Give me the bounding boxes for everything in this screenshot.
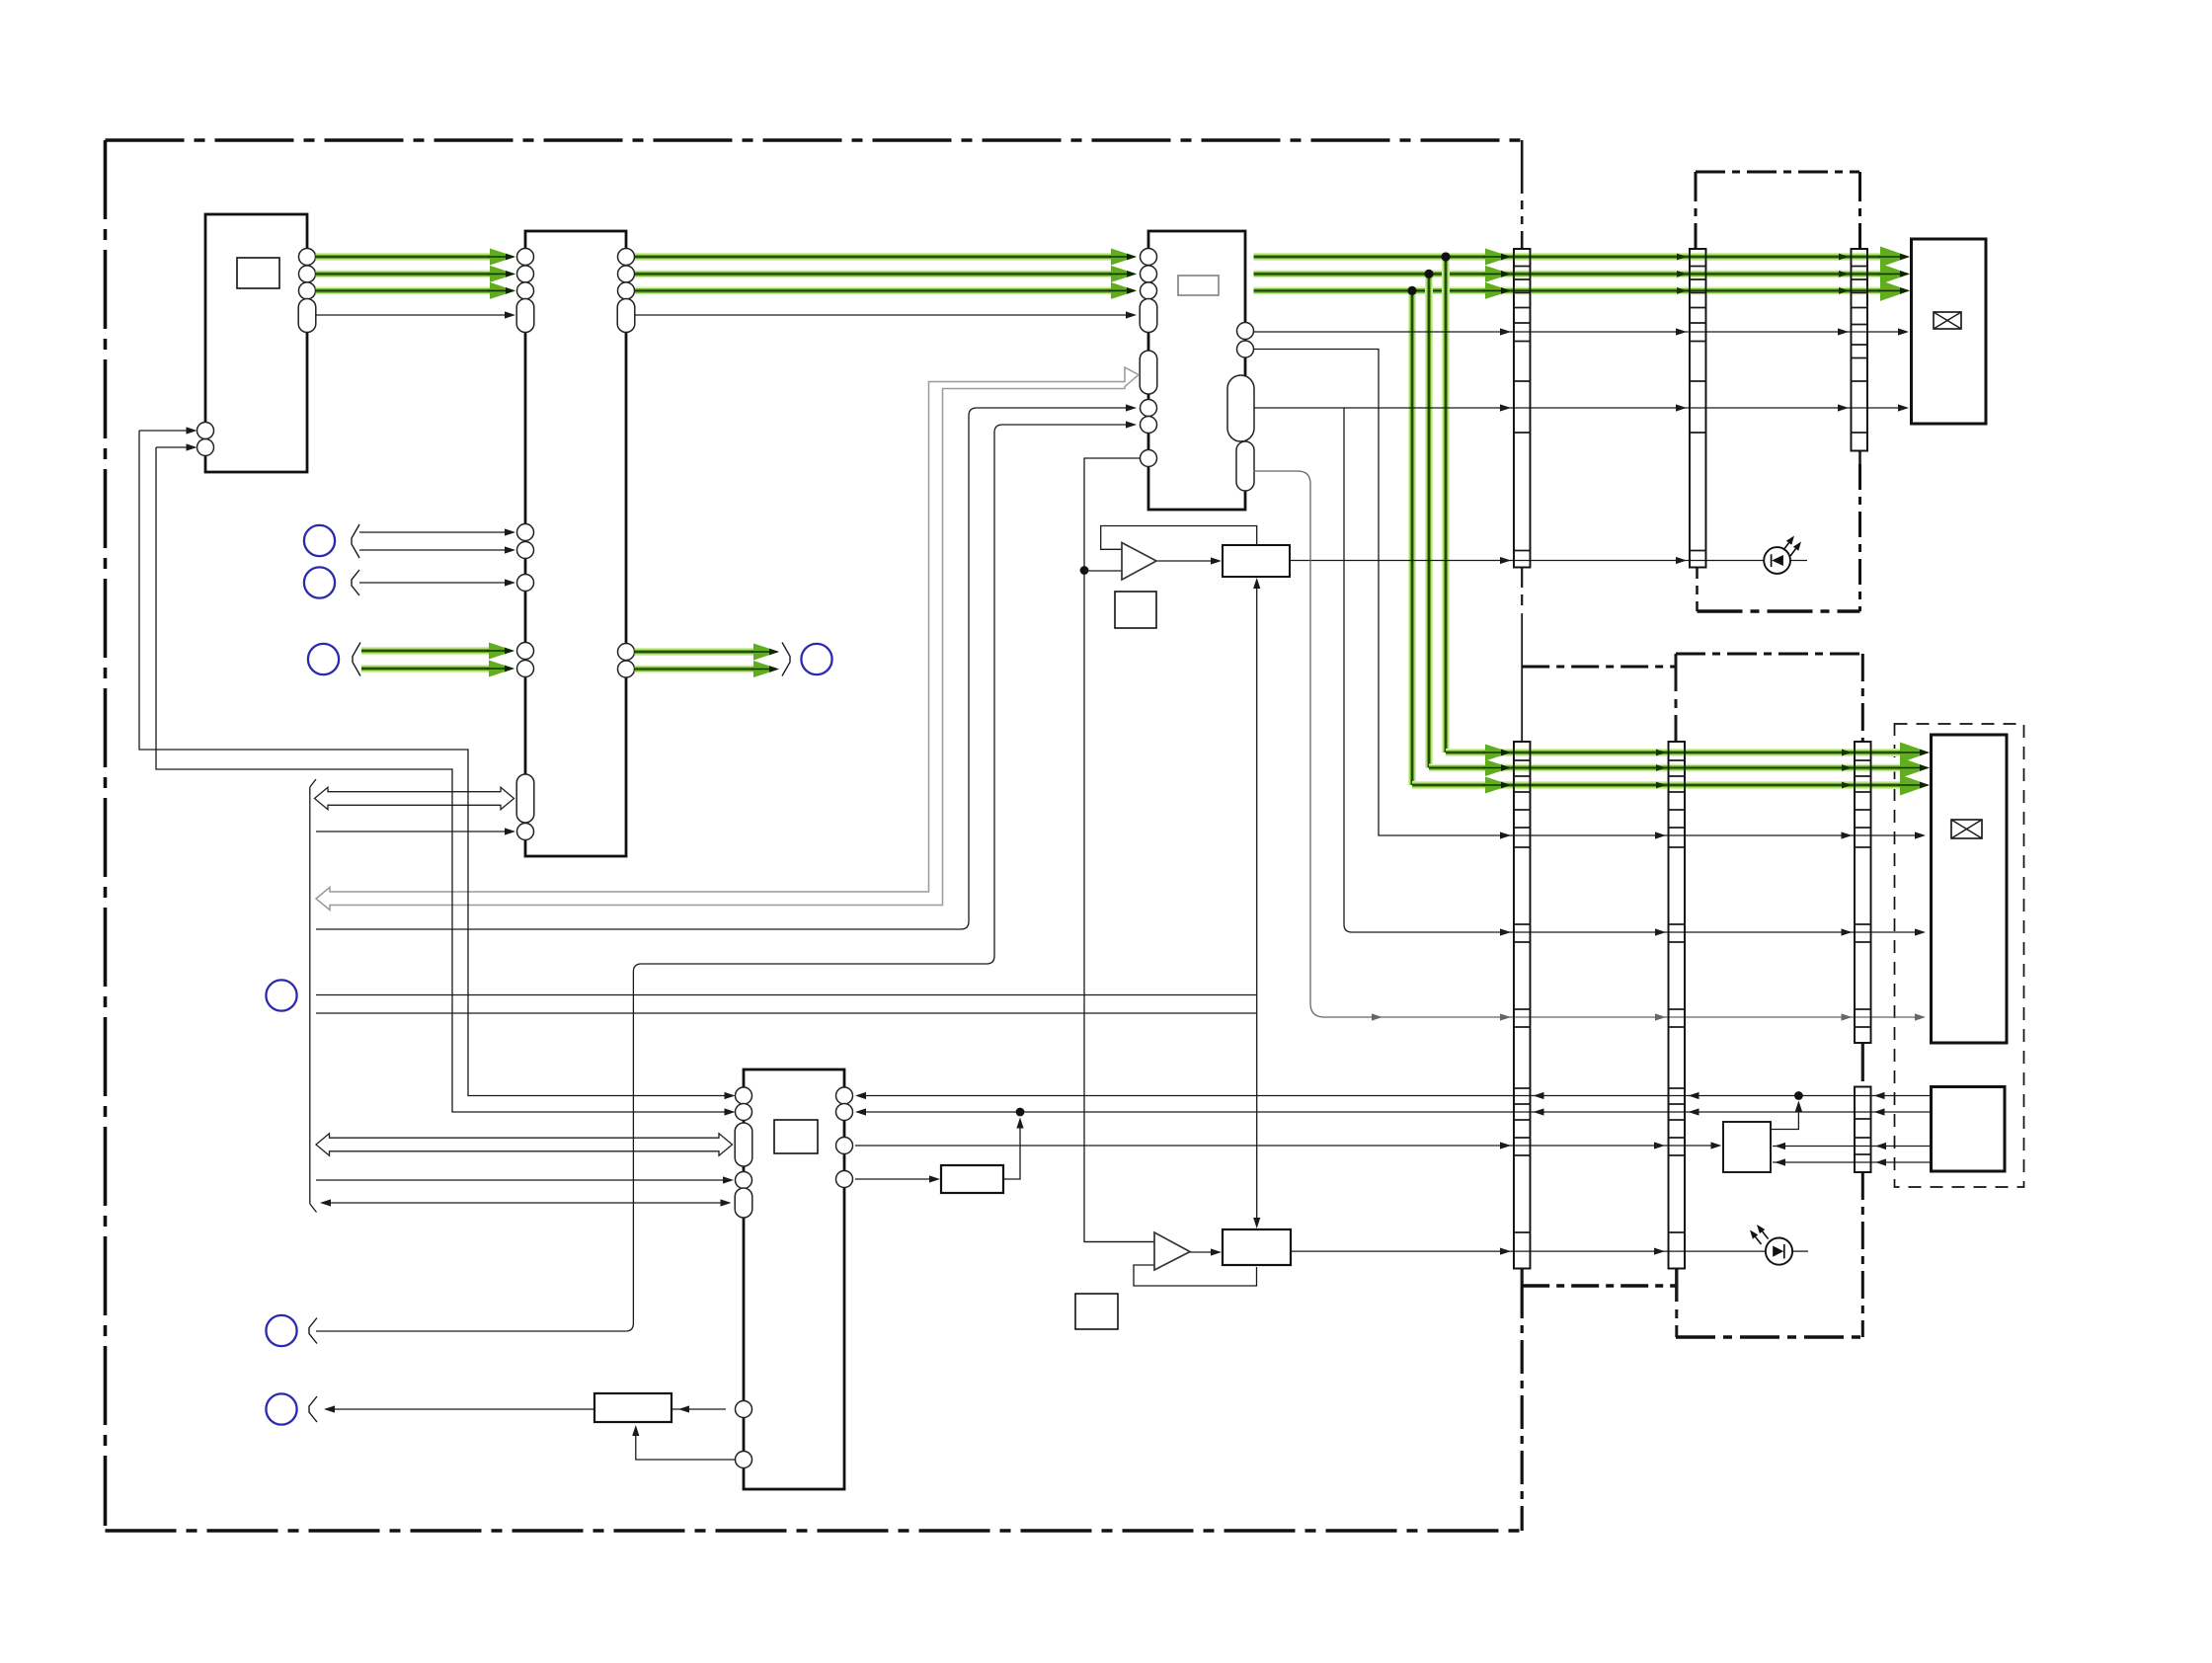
connector CN8b (small lower part of CN8) xyxy=(1855,1087,1871,1173)
connector CN6 outline overlay xyxy=(1514,742,1531,1269)
connector CN6 (vertical inline connector, lower left) xyxy=(1514,742,1531,1269)
green video line B: CN1 to U2 xyxy=(635,286,1120,294)
LED D2 (photo-reflector, lower) xyxy=(1766,1238,1792,1265)
resistor R4 (after op-amp A2) xyxy=(1223,1229,1291,1265)
connector CN5 (sub-board A right connector) xyxy=(1851,249,1867,451)
wire: R3 to U6 pad xyxy=(671,1408,726,1410)
wire: control line A (y=1007.5) to resistor rail xyxy=(316,994,1257,996)
LCD module dashed enclosure xyxy=(1895,724,2024,1187)
block U5 (small unit bottom right) xyxy=(1932,1087,2006,1172)
junction dot: green R branch xyxy=(1441,252,1450,261)
sub-board B outline: right edge between CN8 and CN8b xyxy=(1861,1043,1864,1081)
green video line R: U1 to CN1 xyxy=(316,253,500,261)
connector CN7 outline overlay xyxy=(1669,742,1686,1269)
terminal J2 (blue) xyxy=(304,567,335,597)
wire: U5 to U7 (y=1160.5) xyxy=(1773,1146,1931,1148)
wire: terminal J7 line from R3 xyxy=(326,1408,594,1410)
wire: branch of y413 line down to lower section and across to U4 (y=944) xyxy=(1344,408,1917,932)
test-point square TP2 (below op-amp A2) xyxy=(1075,1294,1118,1329)
wire: R1 to LED D1 via CN3/CN4 (LED drive, upper) xyxy=(1290,560,1765,562)
sub-board B (lower flex board) dash-dot outline: top edge xyxy=(1676,653,1863,656)
wire: sync line CN1 to U2 xyxy=(635,314,1128,316)
sub-board B outline: right edge below CN8b (dash-dot) xyxy=(1861,1172,1864,1337)
CN1 left pads (bus stadium + bottom pad) xyxy=(516,774,534,823)
U3 crossed-box symbol (lamp/heater element) xyxy=(1934,312,1961,329)
routed bus arrow (U2 stadium to lower left, gray outline) xyxy=(316,367,1139,911)
green aux pair in: to CN1 (lower) xyxy=(361,665,499,673)
sub-board A outline: right edge upper part xyxy=(1858,172,1861,249)
wire: aux line 1 to CN1 xyxy=(359,531,507,533)
wire: U7 to junction riser xyxy=(1771,1106,1798,1130)
terminal J1 (blue) xyxy=(304,525,335,556)
green branch B: vertical + lower run to U4 xyxy=(1408,290,1416,785)
wire: bus link line to U6 stadium2 (y=1218) xyxy=(322,1202,723,1204)
U6 left pads (bottom pair) xyxy=(736,1401,752,1418)
wire: U5 data to U6 (y=1126) across connectors xyxy=(857,1111,1931,1113)
wire: U2 pad to lower section and across to U4 (x=1396, y=846) xyxy=(1254,350,1918,836)
wire: input to U1 pad 1 xyxy=(139,430,195,432)
green video line G: U1 to CN1 xyxy=(316,270,500,277)
wire: R2 up to y1126 junction xyxy=(1003,1123,1020,1179)
junction dot: green B branch xyxy=(1407,286,1416,295)
wire: route from terminal J6 to U2 pad (y1348,x641,y976,x1007) xyxy=(316,425,1128,1331)
green video line G: U2 to U3 via CN3/CN4/CN5 xyxy=(1254,270,1893,277)
wire: line to CN1 bottom pad xyxy=(316,831,507,832)
wire: op-amp A2 input from reference rail xyxy=(1084,1241,1155,1243)
wire: op-amp A2 feedback loop xyxy=(1134,1265,1257,1286)
wire: resistor rail vertical (feeds R1 up / R4 down) xyxy=(1256,589,1258,1219)
op-amp A1 xyxy=(1122,543,1156,581)
resistor R1 (after op-amp A1) xyxy=(1223,545,1290,577)
sub-board A outline: left edge below CN4 xyxy=(1696,568,1698,580)
wire: sync line U1 to CN1 xyxy=(316,314,507,316)
wire: op-amp A1 output to R1 xyxy=(1156,560,1213,562)
connector CN4 outline overlay xyxy=(1690,249,1706,568)
sub-board A (upper flex board) dash-dot outline: top edge xyxy=(1696,171,1859,174)
IC U1 (signal source block) xyxy=(205,214,307,472)
wire: aux line 2 to CN1 xyxy=(359,549,507,551)
CN1 right pads top group xyxy=(618,249,635,266)
connector CN3 (vertical inline connector on main board right edge, upper) xyxy=(1514,249,1531,568)
terminal J4 (blue, green pair out) xyxy=(801,644,831,674)
sub-board A outline: right edge below CN5 xyxy=(1858,451,1861,465)
U6 internal function rectangle xyxy=(774,1120,818,1153)
resistor R2 (near U6 right side) xyxy=(941,1165,1003,1193)
terminal J7 (blue) xyxy=(266,1393,296,1424)
op-amp A2 xyxy=(1154,1232,1190,1270)
U6 left pads (bus in) xyxy=(736,1087,752,1104)
U2 left pads (bus stadium + control) xyxy=(1140,351,1157,394)
wire: input to U1 pad 2 xyxy=(156,446,195,448)
wire: R4 to LED D2 via CN6/CN7 (LED drive, lower) xyxy=(1291,1250,1766,1252)
wire: op-amp A2 output to R4 xyxy=(1189,1251,1213,1253)
U1 left pads (control in) xyxy=(197,423,214,439)
sub-board B outline: left edge to CN7 top xyxy=(1675,654,1678,691)
bidirectional bus arrow (U6 stadium to left area) xyxy=(316,1134,733,1155)
green branch R: vertical + lower run to U4 xyxy=(1442,257,1450,752)
main board outline: right edge between CN3 and CN6 (solid+dash) xyxy=(1521,568,1523,589)
wire: long route J-line to U2 pad (y941 then up at x981) xyxy=(316,408,1128,929)
green branch G: vertical + lower run to U4 xyxy=(1425,274,1433,767)
CN1 left pads (green pair in) xyxy=(517,643,534,660)
connector CN4 (sub-board A left connector) xyxy=(1690,249,1706,568)
U4 crossed-box symbol xyxy=(1951,820,1982,838)
bidirectional bus arrow (CN1 stadium to left area) xyxy=(315,787,514,809)
terminal J5 (blue) xyxy=(266,980,296,1010)
green aux pair in: to CN1 (upper) xyxy=(361,647,499,655)
wire: U1 ctrl 2 route (down/right/down to U6 pad) xyxy=(156,447,725,1112)
wire: U6 pad to R2 xyxy=(855,1178,932,1180)
green video line B: U2 to U3 via CN3/CN4/CN5 xyxy=(1254,286,1893,294)
resistor R3 (bottom left, to terminal J7) xyxy=(594,1393,671,1422)
wire: vertical link at x=313 (bus continuation) xyxy=(309,787,311,1204)
U2 right pads xyxy=(1237,323,1254,340)
wire: U6 control to U7 (y=1160) xyxy=(855,1145,1715,1147)
main board boundary jog (dash-dot) at y=675 to sub-board B xyxy=(1522,666,1676,669)
sub-board B outline: right edge above CN8 xyxy=(1861,654,1864,742)
U6 right pads xyxy=(836,1087,853,1104)
green aux pair out: CN1 to terminal J4 (lower) xyxy=(635,666,763,673)
junction: U7 riser on y1109.5 line xyxy=(1794,1091,1803,1100)
U2 internal label rectangle xyxy=(1178,276,1219,295)
connector CN8 (sub-board B right connector) xyxy=(1855,742,1871,1043)
wire: U2 pill control to CN3..U3 (y=413) with branch at x=1361 xyxy=(1254,407,1901,409)
sub-board A outline: bottom edge xyxy=(1698,609,1860,612)
test-point square TP1 (below op-amp A1) xyxy=(1115,592,1156,628)
main board outline: top edge (dash-dot) xyxy=(106,138,1523,142)
terminal J3 (blue) xyxy=(308,644,339,674)
CN1 left pads (aux in, mid) xyxy=(517,524,534,541)
sub-board B outline: bottom edge xyxy=(1676,1335,1863,1338)
LED D1 (photo-reflector, upper) xyxy=(1764,547,1790,574)
IC U6 (bottom middle controller) xyxy=(744,1069,844,1489)
green video line R: U2 to U3 via CN3/CN4/CN5 xyxy=(1254,253,1893,261)
CN1 right pads (green pair out) xyxy=(618,644,635,661)
connector CN8b outline overlay xyxy=(1855,1087,1871,1173)
connector CN7 (sub-board B left connector) xyxy=(1669,742,1686,1269)
connector CN5 outline overlay xyxy=(1851,249,1867,451)
main board outline: right edge below CN6 to bottom corner (dash-dot) xyxy=(1521,1269,1524,1286)
U2 right pill pads xyxy=(1227,375,1254,441)
U1 internal function rectangle xyxy=(237,258,279,288)
connector CN8 outline overlay xyxy=(1855,742,1871,1043)
green aux pair out: CN1 to terminal J4 (upper) xyxy=(635,648,763,656)
connector CN1 (tall pass-through connector) xyxy=(525,231,626,856)
wire: line to U6 pad (y=1195) xyxy=(316,1179,725,1181)
IC U2 (middle processing IC) xyxy=(1148,231,1245,510)
wire: U5 data to U6 (y=1109.5) across CN8b/CN7/CN6 xyxy=(857,1095,1931,1097)
wire: tap to op-amp A1 input xyxy=(1084,570,1122,572)
wire: op-amp A1 feedback loop xyxy=(1101,526,1257,550)
wire: U2 status to CN3/CN4/CN5/U3 (y=336) xyxy=(1254,331,1901,333)
wire: U5 to U7 (y=1177) xyxy=(1773,1161,1931,1163)
wire: U1 ctrl 1 route (down/right/down to U6 pad) xyxy=(139,431,725,1096)
sub-board A outline: left edge to CN4 top xyxy=(1695,172,1698,249)
block U3 (upper right unit behind CN5) xyxy=(1912,239,1987,424)
IC U7 (interface IC near CN8b) xyxy=(1723,1122,1771,1172)
main board outline: right edge upper segment at x=1541 (to connector CN3 top) xyxy=(1521,140,1524,194)
terminal J6 (blue) xyxy=(266,1315,296,1346)
green video line B: U1 to CN1 xyxy=(316,286,500,294)
sub-board B outline: left edge below CN7 xyxy=(1675,1269,1678,1303)
wire: control line B (y=1026) to resistor rail xyxy=(316,1012,1257,1014)
U1 right pads (video R/G/B + sync stadium) xyxy=(299,249,316,266)
U2 left pads top group xyxy=(1141,249,1157,266)
connector CN3 outline overlay xyxy=(1514,249,1531,568)
main board outline: left edge (dash-dot) xyxy=(104,140,108,1526)
green video line R: CN1 to U2 xyxy=(635,253,1120,261)
wire: U2 pill2 to lower section and across to U4 (gray, x=1327, y=1030) xyxy=(1254,471,1918,1017)
junction dot: green G branch xyxy=(1424,270,1433,278)
junction: R2 riser on y1126 line xyxy=(1016,1108,1025,1117)
main board outline: bottom edge (dash-dot) xyxy=(106,1529,1523,1533)
wire: aux line 3 to CN1 xyxy=(359,582,507,584)
main board boundary jog (dash-dot) at y=1302 to sub-board B xyxy=(1522,1284,1676,1288)
green video line G: CN1 to U2 xyxy=(635,270,1120,277)
junction: op-amp A1 tap xyxy=(1080,566,1089,575)
CN1 left pads top group xyxy=(517,249,534,266)
block U4 (lower right unit in LCD enclosure) xyxy=(1932,735,2008,1043)
wire: U2 reference output to op-amps (long vertical at x=1098) xyxy=(1084,458,1155,1242)
wire: U6 pad2 to R3 bottom xyxy=(636,1430,736,1460)
